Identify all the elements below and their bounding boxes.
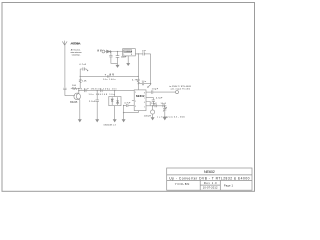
ground (C10 / IC gnd): [122, 120, 125, 122]
capacitor C13 (10pF): [155, 104, 156, 107]
capacitor C14 (10pF): [163, 104, 164, 107]
svg-text:ant. input 75 ohm: ant. input 75 ohm: [171, 88, 191, 91]
svg-text:10pF: 10pF: [151, 103, 157, 105]
svg-text:2.2uF: 2.2uF: [89, 101, 96, 103]
schematic text labels: [70, 42, 191, 126]
svg-text:Page 1: Page 1: [224, 183, 234, 187]
svg-text:1: 1: [123, 54, 124, 56]
capacitor C6 (10n between): [138, 82, 150, 85]
svg-text:3.3uF 1N4148 100p 10n: 3.3uF 1N4148 100p 10n: [81, 89, 118, 91]
wire mid output line: [150, 105, 166, 107]
svg-text:4.7K: 4.7K: [132, 80, 138, 82]
node 9V terminal J1: [102, 50, 105, 53]
ground (9V bypass): [116, 63, 119, 67]
svg-text:tuned inp.: tuned inp.: [72, 53, 81, 56]
antenna ANT1: [62, 41, 67, 46]
diode D1 (series): [107, 50, 111, 53]
svg-text:Up - Converter DVB - T RTL283: Up - Converter DVB - T RTL2832 & E4000: [169, 176, 249, 180]
node output terminal J2: [176, 91, 179, 94]
svg-text:YO3LBN: YO3LBN: [175, 182, 190, 186]
title block: [167, 168, 252, 190]
inductor L1 (RFC): [151, 106, 155, 118]
capacitor C1 (series on antenna line): [63, 88, 66, 95]
wire pin7 stub: [146, 96, 153, 98]
svg-text:5: 5: [144, 106, 145, 108]
wire antenna lead: [64, 45, 66, 87]
svg-text:10n 1N4148 10n: 10n 1N4148 10n: [89, 94, 116, 96]
wire signal line: [79, 90, 134, 92]
ground (trimmer): [163, 118, 166, 120]
ground (L1): [151, 118, 154, 120]
junction dots: [78, 51, 153, 113]
svg-text:4.7uF: 4.7uF: [124, 102, 131, 104]
svg-text:1nF: 1nF: [142, 50, 147, 52]
svg-text:9V: 9V: [97, 49, 101, 53]
capacitor C10 (pin2 bypass): [124, 104, 135, 107]
wire arrow into pin6: [147, 85, 150, 88]
svg-text:7: 7: [144, 98, 145, 100]
wire gate: [65, 95, 75, 97]
svg-text:L = 5 wdg CuL 0.5 - 5mm: L = 5 wdg CuL 0.5 - 5mm: [157, 116, 185, 118]
svg-text:BF245: BF245: [70, 102, 78, 104]
capacitor C8 (series on signal): [101, 89, 102, 92]
svg-text:4.7uF: 4.7uF: [79, 64, 86, 66]
resistor R1: [71, 88, 79, 90]
resistor R3 (Vcc feed): [137, 79, 139, 90]
capacitor C12 (4.7pF): [152, 97, 155, 106]
capacitor C11 (10pF output): [146, 90, 176, 93]
svg-text:10pF: 10pF: [161, 103, 167, 105]
wire diode box bottom: [114, 106, 116, 120]
transistor Q1 BF245: [74, 91, 81, 100]
capacitor C3 (bypass at 9V): [109, 52, 117, 64]
capacitor C2 (47pF top left): [83, 67, 88, 71]
wire source to ground: [79, 100, 81, 120]
ground (oscillator): [127, 56, 130, 66]
svg-text:100nF: 100nF: [121, 56, 127, 58]
svg-text:10-07-2012: 10-07-2012: [203, 186, 218, 190]
svg-text:NE602: NE602: [136, 94, 145, 98]
wire Vcc drop: [137, 54, 139, 79]
capacitor C9 (2.2uF to ground): [96, 91, 99, 120]
svg-text:NE602: NE602: [204, 169, 216, 174]
wire +9V rail: [80, 75, 138, 77]
svg-text:1: 1: [135, 92, 136, 94]
wire pin5 pin6 stubs: [146, 102, 150, 106]
wire osc signal drop: [150, 54, 152, 85]
diode box D2 D3 clamp: [109, 97, 121, 106]
capacitor C4 100n: [116, 52, 120, 64]
ground (C9): [96, 120, 99, 122]
capacitor C7 (series on signal): [85, 89, 86, 92]
svg-text:8: 8: [144, 93, 145, 95]
capacitor C5 (osc coupling): [138, 52, 150, 55]
ground (Q1 source): [78, 120, 81, 122]
svg-text:100MHz: 100MHz: [124, 51, 133, 53]
op-amp U1 NE602 box: [134, 90, 146, 111]
ground (diode box): [113, 120, 116, 122]
svg-text:10pF: 10pF: [152, 88, 159, 90]
wire 9V input: [105, 51, 123, 53]
wire drain node: [78, 89, 80, 91]
wire osc output: [135, 53, 138, 55]
svg-text:4.7pF: 4.7pF: [156, 98, 163, 100]
wire pin3 stub: [132, 99, 134, 101]
svg-text:Rev 1.0: Rev 1.0: [204, 181, 217, 185]
oscillator U2 box: [123, 49, 136, 56]
svg-text:2: 2: [135, 101, 136, 103]
wire diode box top: [114, 91, 116, 97]
svg-text:1N4148 x 2: 1N4148 x 2: [103, 125, 116, 127]
svg-text:1.2K: 1.2K: [82, 81, 87, 83]
svg-text:ANTENNA: ANTENNA: [71, 42, 81, 45]
wire rail riser: [80, 69, 83, 76]
svg-text:8: 8: [131, 54, 132, 56]
wire IC ground path: [124, 111, 139, 113]
wire pin2 ground drop: [123, 106, 125, 120]
svg-text:10n 100n: 10n 100n: [103, 79, 116, 81]
svg-text:3: 3: [135, 106, 136, 108]
svg-text:100uH: 100uH: [144, 116, 151, 118]
svg-text:+ 9V: + 9V: [105, 73, 115, 77]
resistor R2 (vertical, below rail): [79, 76, 81, 88]
border frame: [2, 3, 255, 192]
capacitor C15 (trimmer): [163, 106, 167, 118]
ferrite bead FB1 on rail: [107, 75, 109, 77]
svg-text:6: 6: [144, 102, 145, 104]
